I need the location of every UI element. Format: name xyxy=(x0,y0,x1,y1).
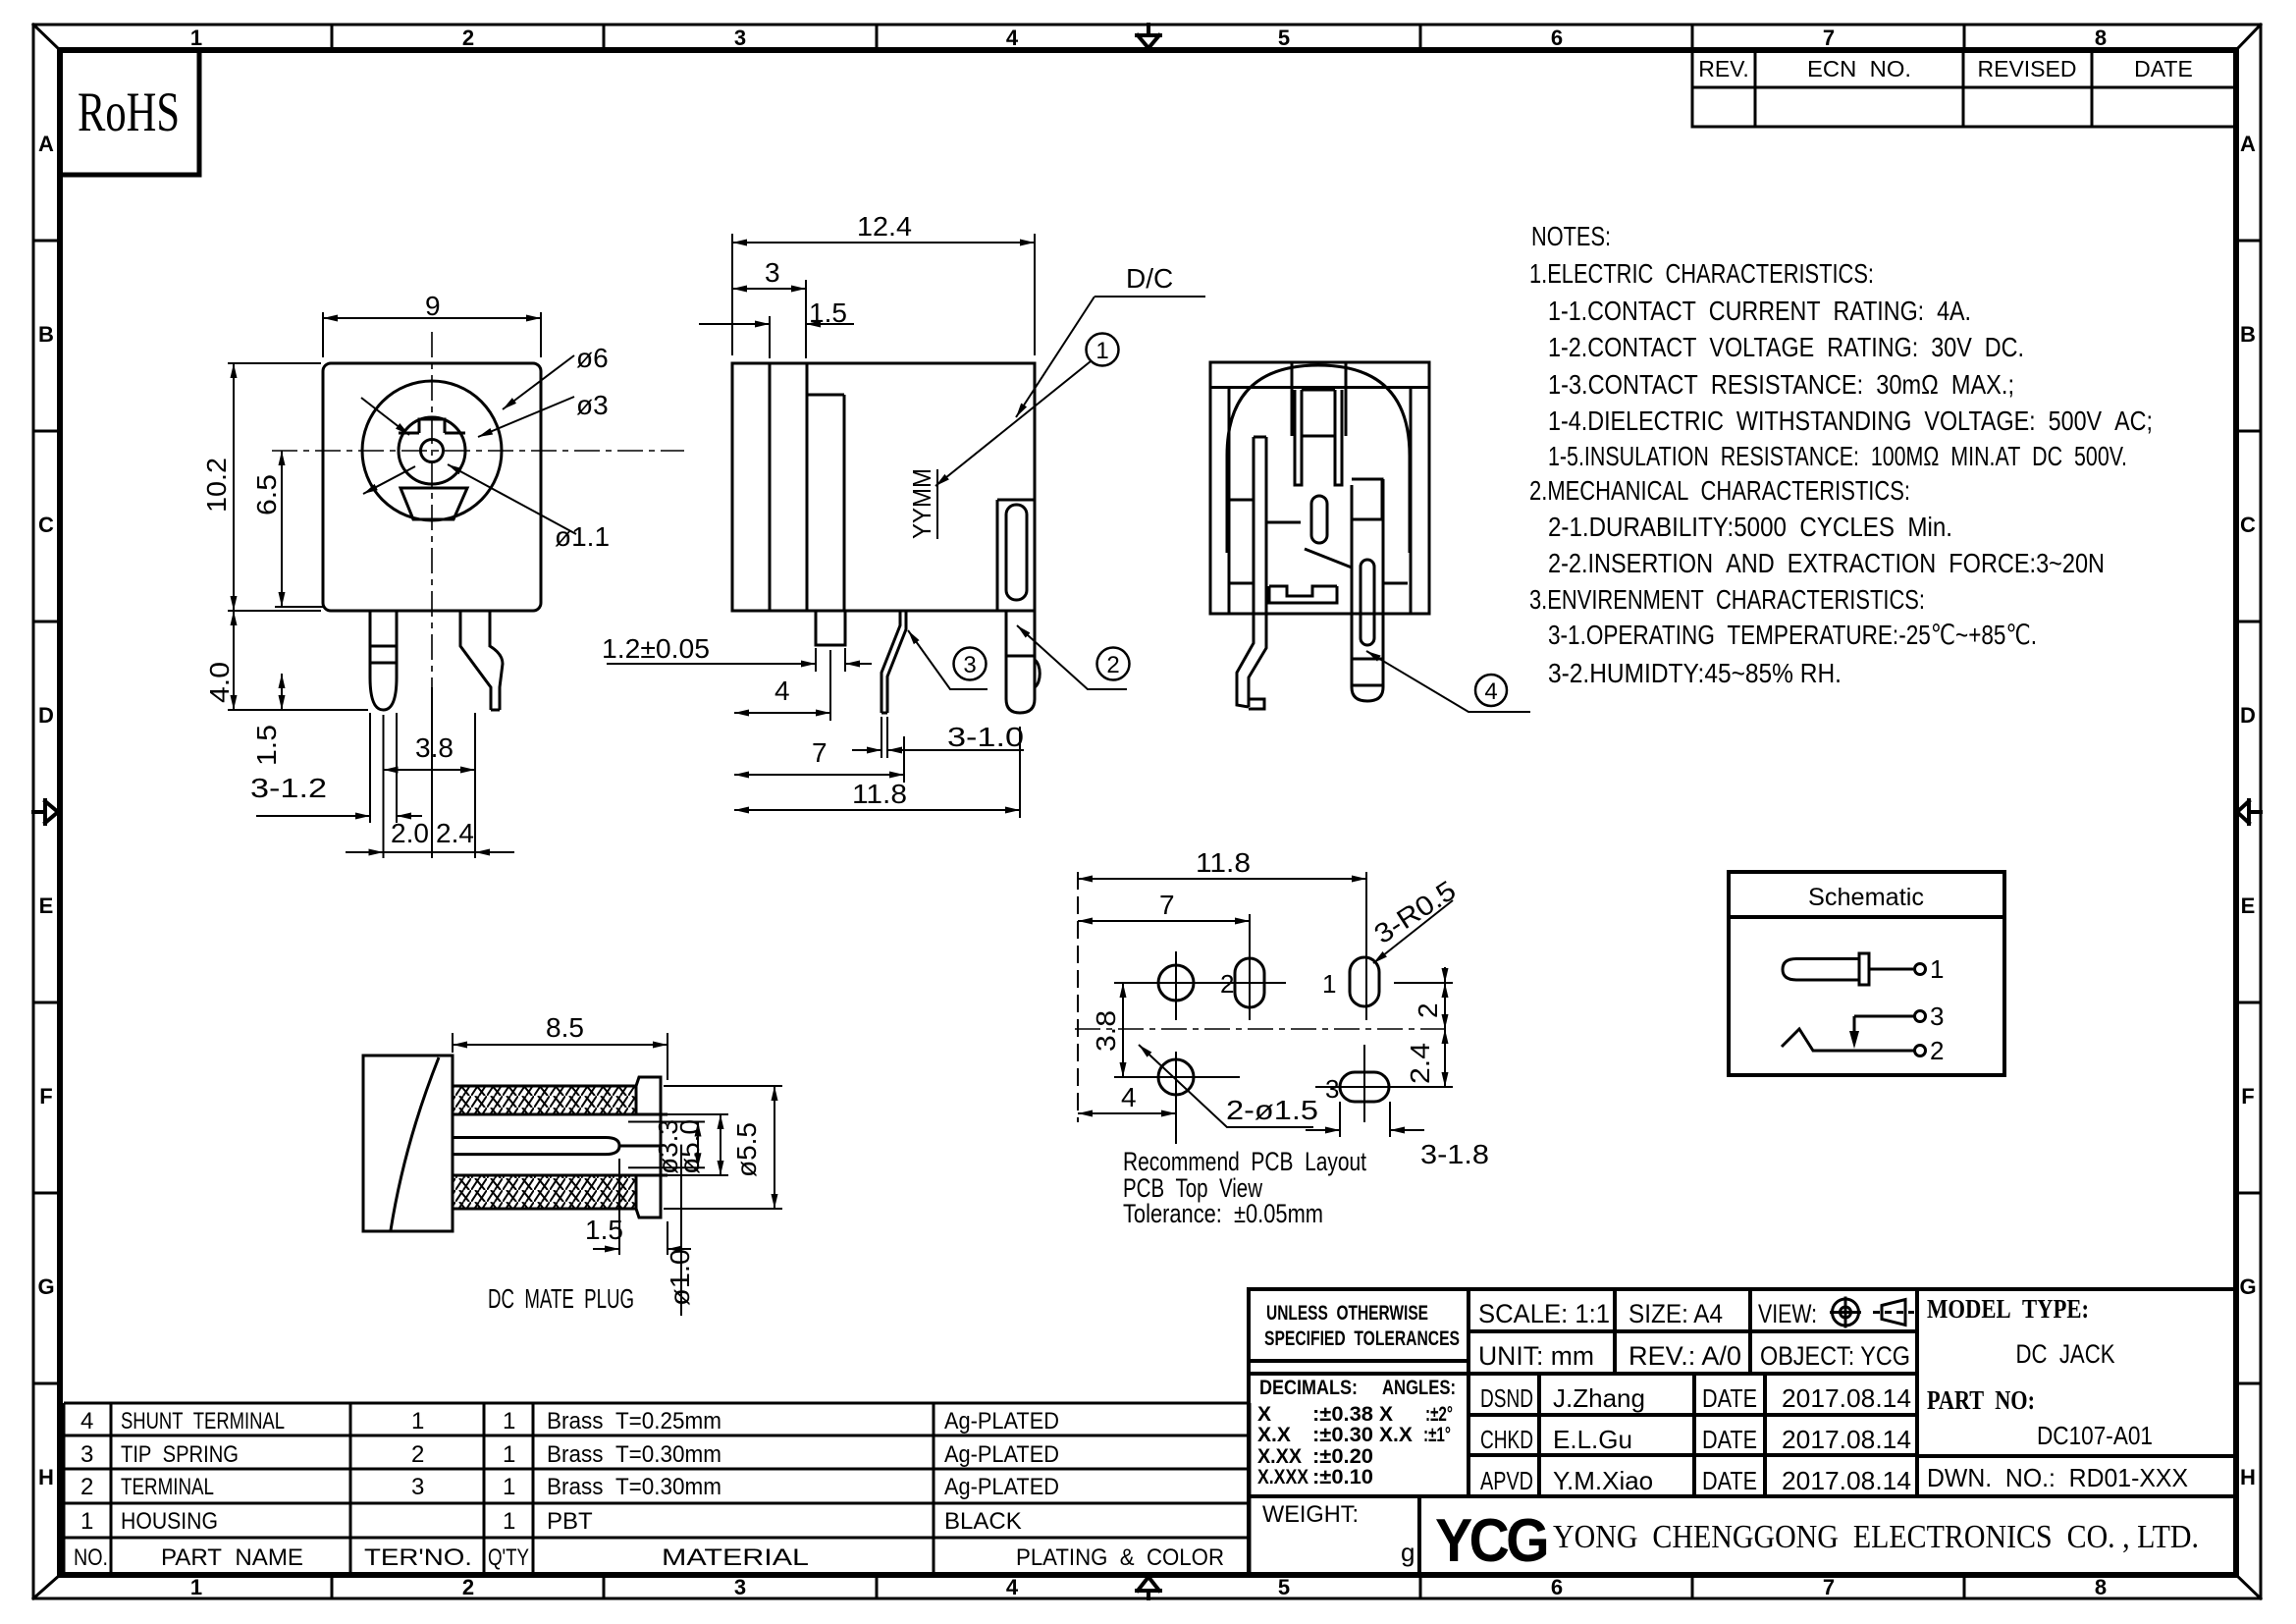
svg-text:2: 2 xyxy=(1930,1036,1944,1065)
svg-text:2: 2 xyxy=(462,1575,474,1599)
svg-text::±0.38: :±0.38 xyxy=(1312,1403,1373,1426)
svg-text:SPECIFIED TOLERANCES: SPECIFIED TOLERANCES xyxy=(1264,1327,1460,1350)
front view circle d1.1 xyxy=(421,440,444,462)
svg-text:2017.08.14: 2017.08.14 xyxy=(1782,1383,1911,1413)
svg-text:1: 1 xyxy=(190,26,202,50)
svg-text:7: 7 xyxy=(1823,1575,1835,1599)
svg-text:4: 4 xyxy=(774,676,790,706)
svg-text:4: 4 xyxy=(1006,1575,1019,1599)
svg-text:8.5: 8.5 xyxy=(546,1012,584,1043)
svg-text:3-1.OPERATING TEMPERATURE:-25: 3-1.OPERATING TEMPERATURE:-25℃~+85℃. xyxy=(1548,620,2037,650)
dimension 3.8 xyxy=(384,713,476,778)
RoHS box xyxy=(60,50,199,175)
svg-text:11.8: 11.8 xyxy=(852,779,907,809)
plug inner lines xyxy=(636,1113,667,1116)
balloon 4 xyxy=(1475,675,1507,706)
svg-text:MODEL TYPE:: MODEL TYPE: xyxy=(1927,1294,2089,1324)
svg-text:g: g xyxy=(1401,1538,1415,1567)
svg-text:DC107-A01: DC107-A01 xyxy=(2037,1421,2153,1450)
svg-text:2: 2 xyxy=(462,26,474,50)
pcb centerline xyxy=(1075,1028,1452,1030)
svg-text:1-4.DIELECTRIC WITHSTANDING: 1-4.DIELECTRIC WITHSTANDING VOLTAGE: 500… xyxy=(1548,406,2153,436)
dimension d5.5 xyxy=(664,1086,782,1209)
side view shunt slot xyxy=(997,500,1035,610)
tolerance header xyxy=(1259,1302,1460,1399)
view symbol target xyxy=(1830,1297,1861,1328)
svg-text:NO.: NO. xyxy=(74,1544,108,1571)
plug hatched sleeve top xyxy=(453,1086,636,1114)
dimension 8.5 xyxy=(453,1033,667,1080)
svg-text:Q'TY: Q'TY xyxy=(488,1544,529,1571)
svg-text:DATE: DATE xyxy=(1702,1425,1757,1454)
svg-text:ø5.5: ø5.5 xyxy=(731,1122,762,1177)
svg-text:YYMM: YYMM xyxy=(907,468,936,539)
svg-text:TIP SPRING: TIP SPRING xyxy=(121,1441,239,1468)
svg-text:ø5.0: ø5.0 xyxy=(674,1119,705,1174)
rear view side walls xyxy=(1228,388,1231,615)
pad 2 xyxy=(1235,958,1264,1007)
svg-text:REV.: A/0: REV.: A/0 xyxy=(1629,1341,1741,1371)
corner diagonal bottom-right xyxy=(2236,1575,2261,1598)
svg-text:DC JACK: DC JACK xyxy=(2016,1339,2115,1369)
svg-text:3: 3 xyxy=(1325,1074,1339,1104)
plug center pin xyxy=(453,1138,619,1155)
dimension 3.8 pcb xyxy=(1122,983,1124,1077)
svg-text:E: E xyxy=(39,893,54,918)
svg-text:3: 3 xyxy=(765,257,780,288)
svg-text:G: G xyxy=(37,1274,54,1299)
svg-text:X.X: X.X xyxy=(1257,1424,1291,1446)
leader 2-d1.5 xyxy=(1139,1045,1313,1127)
svg-text:12.4: 12.4 xyxy=(857,211,912,242)
svg-text:1: 1 xyxy=(411,1408,424,1435)
balloon 1 xyxy=(1087,334,1119,366)
dimension 3-1.2 xyxy=(256,713,422,823)
svg-text:ø6: ø6 xyxy=(576,343,609,373)
NOTES text block xyxy=(1529,221,2153,688)
svg-text::±0.10: :±0.10 xyxy=(1312,1466,1373,1489)
dimension 3-1.0 xyxy=(852,717,1024,758)
svg-text:8: 8 xyxy=(2095,26,2107,50)
svg-text:2.MECHANICAL CHARACTERISTICS:: 2.MECHANICAL CHARACTERISTICS: xyxy=(1529,475,1910,506)
leader d3 xyxy=(478,397,574,437)
svg-text::±0.20: :±0.20 xyxy=(1312,1445,1373,1468)
plug sleeve tip xyxy=(636,1077,661,1218)
svg-text:DSND: DSND xyxy=(1480,1383,1533,1413)
svg-text:6: 6 xyxy=(1551,1575,1563,1599)
front view body xyxy=(323,363,541,611)
dimension 1.5 front xyxy=(281,674,283,710)
pad 3 xyxy=(1340,1072,1389,1102)
rear view top inner line xyxy=(1210,386,1429,389)
svg-text:1-2.CONTACT VOLTAGE RATING:: 1-2.CONTACT VOLTAGE RATING: 30V DC. xyxy=(1548,332,2024,362)
svg-text:2: 2 xyxy=(1413,1002,1443,1018)
dimension 9 xyxy=(323,312,541,357)
front view right bent pin xyxy=(460,611,503,710)
side view body xyxy=(732,363,1035,611)
svg-text:DATE: DATE xyxy=(1702,1383,1757,1413)
svg-text:7: 7 xyxy=(812,737,828,768)
rear view long pin slot xyxy=(1361,560,1374,645)
svg-text:TER'NO.: TER'NO. xyxy=(364,1544,472,1571)
dimension d5.0 xyxy=(667,1114,728,1175)
dimension 11.8 pcb xyxy=(1078,872,1366,1020)
svg-text:1: 1 xyxy=(503,1408,515,1435)
dimension 3-1.8 xyxy=(1306,1102,1424,1137)
front view circle d6 xyxy=(362,381,502,520)
svg-text:DATE: DATE xyxy=(1702,1466,1757,1495)
svg-text:F: F xyxy=(39,1084,52,1109)
dimension 4.0 xyxy=(228,611,368,710)
schematic pin 3 xyxy=(1915,1011,1926,1022)
svg-text:7: 7 xyxy=(1823,26,1835,50)
rear view body xyxy=(1210,362,1429,614)
schematic pin 2 xyxy=(1915,1046,1926,1056)
svg-text:X: X xyxy=(1379,1403,1393,1426)
svg-text:PART NO:: PART NO: xyxy=(1927,1385,2035,1415)
svg-text:DC MATE PLUG: DC MATE PLUG xyxy=(488,1283,634,1314)
svg-text:MATERIAL: MATERIAL xyxy=(662,1544,809,1571)
svg-text:6.5: 6.5 xyxy=(251,474,282,515)
svg-text:3-1.0: 3-1.0 xyxy=(947,722,1024,752)
leader d6 xyxy=(503,355,574,409)
svg-text:E.L.Gu: E.L.Gu xyxy=(1553,1425,1632,1454)
svg-text:D: D xyxy=(38,703,54,728)
dimension 7 side xyxy=(734,736,904,783)
left zone ticks xyxy=(33,241,60,1383)
dimension 1.5 plug xyxy=(593,1159,691,1255)
svg-text:PART NAME: PART NAME xyxy=(161,1544,303,1571)
svg-text:OBJECT: YCG: OBJECT: YCG xyxy=(1760,1341,1910,1371)
svg-text:3: 3 xyxy=(80,1441,93,1468)
svg-text:DATE: DATE xyxy=(2134,56,2193,81)
svg-text:B: B xyxy=(2240,322,2256,347)
svg-text:1.5: 1.5 xyxy=(251,725,282,766)
svg-text:SHUNT TERMINAL: SHUNT TERMINAL xyxy=(121,1408,285,1435)
svg-text:Brass T=0.25mm: Brass T=0.25mm xyxy=(547,1408,721,1435)
svg-text:ANGLES:: ANGLES: xyxy=(1382,1377,1456,1399)
svg-text:2.0: 2.0 xyxy=(391,818,429,848)
front view left pin xyxy=(370,611,397,710)
svg-text:1.5: 1.5 xyxy=(809,298,847,328)
pad hole B xyxy=(1158,1059,1194,1095)
rear view right block xyxy=(1352,479,1382,568)
svg-text:D/C: D/C xyxy=(1126,263,1173,294)
svg-text:1: 1 xyxy=(1930,954,1944,984)
bottom zone ticks xyxy=(332,1575,1964,1598)
svg-text:YCG: YCG xyxy=(1435,1507,1547,1575)
svg-text:5: 5 xyxy=(1278,26,1290,50)
svg-text:7: 7 xyxy=(1159,890,1175,920)
svg-text:3-2.HUMIDTY:45~85% RH.: 3-2.HUMIDTY:45~85% RH. xyxy=(1548,658,1842,688)
svg-text:Ag-PLATED: Ag-PLATED xyxy=(944,1408,1059,1435)
svg-text:3: 3 xyxy=(963,652,976,678)
parts table xyxy=(64,1403,1250,1574)
right center registration mark xyxy=(2237,800,2261,824)
svg-text:X.XX: X.XX xyxy=(1257,1445,1302,1468)
rear view bottom channel xyxy=(1269,586,1337,603)
svg-text:REV.: REV. xyxy=(1698,56,1749,81)
svg-text:C: C xyxy=(2240,513,2256,537)
front view vertical centerline xyxy=(431,332,433,687)
svg-text:NOTES:: NOTES: xyxy=(1531,221,1611,251)
svg-text:2: 2 xyxy=(411,1441,424,1468)
svg-text:X.X: X.X xyxy=(1379,1424,1413,1446)
svg-text:F: F xyxy=(2241,1084,2254,1109)
svg-text:1: 1 xyxy=(503,1441,515,1468)
svg-text:1: 1 xyxy=(1322,969,1336,999)
svg-text:4: 4 xyxy=(80,1408,93,1435)
svg-text:3: 3 xyxy=(734,1575,746,1599)
svg-text:Brass T=0.30mm: Brass T=0.30mm xyxy=(547,1441,721,1468)
dimension 2 and 2.4 pcb xyxy=(1394,967,1453,1087)
front view contact trapezoid xyxy=(400,488,467,519)
dimension 1.5 side xyxy=(699,316,854,358)
side view flange lines xyxy=(769,363,772,611)
svg-text:3: 3 xyxy=(734,26,746,50)
svg-text:1.2±0.05: 1.2±0.05 xyxy=(602,633,710,664)
dsnd chkd apvd rows xyxy=(1480,1383,1911,1495)
svg-text:10.2: 10.2 xyxy=(201,458,232,513)
svg-text:YONG CHENGGONG ELECTRONICS: YONG CHENGGONG ELECTRONICS CO. , LTD. xyxy=(1553,1519,2199,1555)
svg-text:Ag-PLATED: Ag-PLATED xyxy=(944,1441,1059,1468)
svg-text:DWN. NO.: RD01-XXX: DWN. NO.: RD01-XXX xyxy=(1927,1463,2188,1492)
svg-text:2-2.INSERTION AND EXTRACTION: 2-2.INSERTION AND EXTRACTION FORCE:3~20N xyxy=(1548,548,2105,578)
front view horizontal centerline xyxy=(272,450,684,452)
svg-text:Brass T=0.30mm: Brass T=0.30mm xyxy=(547,1474,721,1500)
svg-text:3-1.8: 3-1.8 xyxy=(1420,1139,1489,1169)
svg-text:J.Zhang: J.Zhang xyxy=(1553,1383,1645,1413)
svg-text:1-1.CONTACT CURRENT RATING:: 1-1.CONTACT CURRENT RATING: 4A. xyxy=(1548,296,1971,326)
svg-text:4: 4 xyxy=(1006,26,1019,50)
rear view long pin xyxy=(1352,479,1383,701)
right zone ticks xyxy=(2236,241,2261,1383)
svg-text:ECN NO.: ECN NO. xyxy=(1807,56,1911,81)
rear view diagonal xyxy=(1305,549,1352,568)
schematic pin 1 xyxy=(1915,964,1926,975)
svg-text:2.4: 2.4 xyxy=(1405,1043,1435,1084)
pcb left extension dashed xyxy=(1077,872,1079,1122)
svg-text:2.4: 2.4 xyxy=(436,818,474,848)
svg-text:X.XXX: X.XXX xyxy=(1257,1466,1308,1489)
svg-text:4: 4 xyxy=(1484,678,1497,705)
svg-text::±1°: :±1° xyxy=(1423,1424,1451,1446)
svg-text:Ag-PLATED: Ag-PLATED xyxy=(944,1474,1059,1500)
plug handle xyxy=(363,1056,453,1231)
svg-text:PBT: PBT xyxy=(547,1508,593,1535)
dimension 11.8 side xyxy=(734,727,1020,818)
svg-text:2-ø1.5: 2-ø1.5 xyxy=(1226,1095,1318,1125)
svg-text:2-1.DURABILITY:5000 CYCLES M: 2-1.DURABILITY:5000 CYCLES Min. xyxy=(1548,512,1952,542)
leader d1.1 xyxy=(448,464,576,534)
svg-text:1: 1 xyxy=(80,1508,93,1535)
svg-text:C: C xyxy=(38,513,54,537)
rear view left pin xyxy=(1237,437,1266,707)
svg-text:G: G xyxy=(2239,1274,2256,1299)
svg-text:Schematic: Schematic xyxy=(1808,884,1924,911)
svg-text:4: 4 xyxy=(1121,1082,1137,1112)
schematic plug symbol xyxy=(1783,953,1913,985)
balloon 3 xyxy=(954,648,987,680)
side view pin1 side xyxy=(816,611,845,645)
side view bent pin xyxy=(881,611,906,713)
svg-text:H: H xyxy=(38,1465,54,1489)
bottom center registration mark xyxy=(1137,1577,1160,1598)
svg-text:A: A xyxy=(38,132,54,156)
front view circle d3 xyxy=(399,417,465,484)
rear view slot legs xyxy=(1295,390,1342,485)
dimension 3 side xyxy=(732,280,806,358)
revision table top right xyxy=(1692,50,2236,127)
svg-text:3: 3 xyxy=(411,1474,424,1500)
title block outline xyxy=(1249,1289,2236,1574)
svg-text:D: D xyxy=(2240,703,2256,728)
dimension 6.5 xyxy=(275,451,324,607)
svg-text:PLATING & COLOR: PLATING & COLOR xyxy=(1016,1544,1224,1571)
svg-text::±2°: :±2° xyxy=(1425,1403,1453,1426)
dimension d1.0 xyxy=(680,1155,682,1316)
svg-text:HOUSING: HOUSING xyxy=(121,1508,218,1535)
svg-text:2: 2 xyxy=(1220,969,1234,999)
svg-text:9: 9 xyxy=(425,291,441,321)
svg-text:1: 1 xyxy=(1095,338,1108,364)
svg-text:11.8: 11.8 xyxy=(1196,847,1251,878)
svg-text:1-5.INSULATION RESISTANCE: 1: 1-5.INSULATION RESISTANCE: 100MΩ MIN.AT … xyxy=(1548,441,2127,471)
dimension 12.4 xyxy=(732,234,1035,355)
svg-text:Tolerance: ±0.05mm: Tolerance: ±0.05mm xyxy=(1123,1199,1323,1228)
top zone numbers xyxy=(190,26,2107,50)
svg-text:8: 8 xyxy=(2095,1575,2107,1599)
dimension 10.2 xyxy=(228,363,321,611)
dimension 2.0 2.4 xyxy=(346,687,514,858)
rear view left pin foot xyxy=(1249,699,1264,709)
svg-text:1: 1 xyxy=(503,1474,515,1500)
svg-text:ø3: ø3 xyxy=(576,390,609,420)
rear view dome xyxy=(1227,365,1410,553)
corner diagonal bottom-left xyxy=(33,1575,60,1598)
side view right pin xyxy=(1006,611,1040,713)
svg-text:4.0: 4.0 xyxy=(204,662,235,703)
svg-text:2: 2 xyxy=(1106,652,1119,678)
svg-text:A: A xyxy=(2240,132,2256,156)
dimension 7 pcb xyxy=(1078,914,1250,1020)
svg-text:CHKD: CHKD xyxy=(1480,1425,1533,1454)
dimension d3.3 xyxy=(628,1122,705,1168)
svg-text:1: 1 xyxy=(503,1508,515,1535)
svg-text:BLACK: BLACK xyxy=(944,1508,1022,1535)
dimension 4 pcb xyxy=(1078,1085,1176,1121)
front view keyway notch xyxy=(399,419,465,433)
svg-text:6: 6 xyxy=(1551,26,1563,50)
svg-text:E: E xyxy=(2241,893,2256,918)
svg-text:B: B xyxy=(38,322,54,347)
pad 1 xyxy=(1350,957,1379,1006)
rear view center slot xyxy=(1311,496,1327,543)
right zone letters xyxy=(2239,132,2256,1489)
tolerance values xyxy=(1257,1403,1453,1489)
svg-text:RoHS: RoHS xyxy=(78,81,180,143)
left center registration mark xyxy=(33,800,58,824)
svg-text:Y.M.Xiao: Y.M.Xiao xyxy=(1553,1466,1653,1495)
top center registration mark xyxy=(1137,25,1160,48)
dimension 4 side xyxy=(734,650,830,721)
svg-text:VIEW:: VIEW: xyxy=(1758,1299,1817,1328)
svg-text:H: H xyxy=(2240,1465,2256,1489)
svg-text:ø1.1: ø1.1 xyxy=(555,521,610,552)
svg-text:3-R0.5: 3-R0.5 xyxy=(1368,875,1461,949)
svg-text:UNIT: mm: UNIT: mm xyxy=(1478,1341,1594,1371)
svg-text::±0.30: :±0.30 xyxy=(1312,1424,1373,1446)
svg-text:3.8: 3.8 xyxy=(1091,1010,1121,1052)
svg-text:1: 1 xyxy=(190,1575,202,1599)
svg-text:TERMINAL: TERMINAL xyxy=(121,1474,214,1500)
svg-text:SCALE: 1:1: SCALE: 1:1 xyxy=(1478,1299,1610,1328)
bottom zone numbers xyxy=(190,1575,2107,1599)
svg-text:2: 2 xyxy=(80,1474,93,1500)
svg-text:3-1.2: 3-1.2 xyxy=(250,773,327,803)
svg-text:3: 3 xyxy=(1930,1001,1944,1031)
svg-text:1-3.CONTACT RESISTANCE: 30mΩ: 1-3.CONTACT RESISTANCE: 30mΩ MAX.; xyxy=(1548,369,2014,400)
svg-text:X: X xyxy=(1257,1403,1271,1426)
scale size view cells xyxy=(1478,1299,1910,1371)
view symbol cone xyxy=(1873,1300,1914,1326)
svg-text:2017.08.14: 2017.08.14 xyxy=(1782,1466,1911,1495)
svg-text:3.ENVIRENMENT CHARACTERISTICS: 3.ENVIRENMENT CHARACTERISTICS: xyxy=(1529,584,1925,615)
svg-text:5: 5 xyxy=(1278,1575,1290,1599)
top zone ticks xyxy=(332,25,1964,50)
corner diagonal top-left xyxy=(33,25,60,50)
svg-text:UNLESS OTHERWISE: UNLESS OTHERWISE xyxy=(1266,1302,1428,1325)
balloon 2 xyxy=(1097,648,1130,680)
pad hole A xyxy=(1158,965,1194,1001)
svg-text:REVISED: REVISED xyxy=(1978,56,2077,81)
rear view top slot xyxy=(1292,362,1346,436)
svg-text:DECIMALS:: DECIMALS: xyxy=(1259,1377,1358,1399)
corner diagonal top-right xyxy=(2236,25,2261,50)
svg-text:Recommend PCB Layout: Recommend PCB Layout xyxy=(1123,1147,1366,1176)
svg-text:APVD: APVD xyxy=(1480,1466,1533,1495)
svg-text:2017.08.14: 2017.08.14 xyxy=(1782,1425,1911,1454)
svg-text:ø1.0: ø1.0 xyxy=(665,1249,695,1306)
svg-text:1.ELECTRIC CHARACTERISTICS:: 1.ELECTRIC CHARACTERISTICS: xyxy=(1529,258,1874,289)
left zone letters xyxy=(37,132,54,1489)
svg-text:3.8: 3.8 xyxy=(415,732,454,763)
rear view internal steps xyxy=(1229,500,1408,583)
svg-text:SIZE: A4: SIZE: A4 xyxy=(1629,1299,1723,1328)
svg-text:WEIGHT:: WEIGHT: xyxy=(1262,1501,1359,1528)
plug hatched sleeve bottom xyxy=(453,1175,636,1209)
svg-text:1.5: 1.5 xyxy=(585,1215,623,1245)
